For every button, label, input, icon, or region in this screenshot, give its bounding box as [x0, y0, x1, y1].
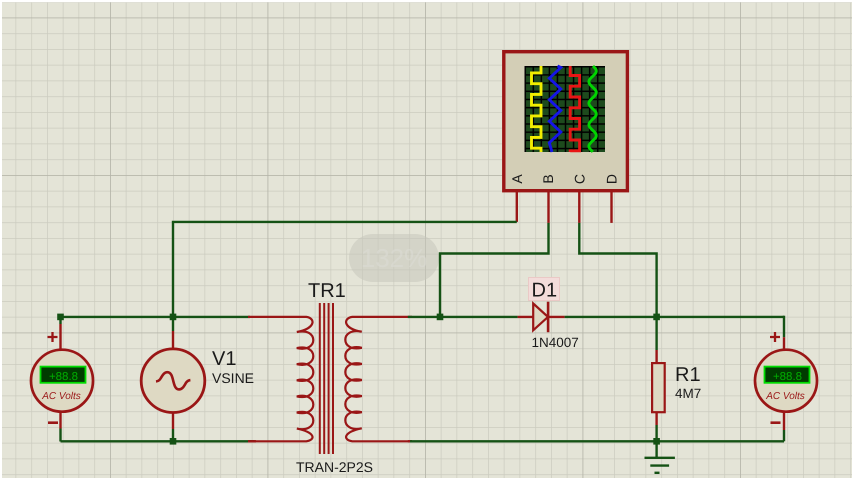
- junction node: left voltmeter / top rail: [57, 314, 64, 321]
- left AC voltmeter: [31, 332, 93, 423]
- transformer TR1 core: [320, 303, 333, 454]
- scope trace channel D (green sine): [589, 66, 596, 152]
- transformer TR1 secondary winding (right): [345, 317, 412, 441]
- wire: diode to right rail (green): [565, 316, 784, 318]
- wire: scope pin C stub: [578, 191, 580, 223]
- svg-text:V1: V1: [212, 348, 236, 370]
- svg-text:VSINE: VSINE: [212, 370, 254, 386]
- wire: red segment into diode anode: [518, 316, 534, 318]
- svg-text:D1: D1: [532, 280, 558, 302]
- svg-text:4M7: 4M7: [675, 386, 701, 401]
- right AC voltmeter: [755, 332, 817, 423]
- diode D1: [529, 278, 579, 351]
- junction node: secondary top / pin B: [437, 314, 444, 321]
- zoom-level smudge overlay: [349, 234, 439, 282]
- svg-text:C: C: [572, 174, 588, 184]
- svg-text:AC Volts: AC Volts: [41, 391, 81, 402]
- svg-text:A: A: [509, 174, 525, 184]
- wire: bottom rail red into primary: [248, 440, 256, 442]
- wire: scope pin D stub (unconnected): [610, 191, 612, 223]
- junction node: diode out / pin C / R1: [653, 314, 660, 321]
- wire: V1 bottom stub: [172, 412, 174, 430]
- wire: scope pin B stub: [547, 191, 549, 223]
- wire: bottom rail left: [61, 440, 255, 442]
- wire: top rail into primary (red) + primary winding TR1 left: [248, 317, 313, 441]
- wire: bottom rail right (green): [410, 440, 784, 442]
- scope trace channel C (red square): [570, 66, 579, 152]
- wire: right rail corner down to right voltmeter +: [783, 316, 785, 338]
- svg-text:TRAN-2P2S: TRAN-2P2S: [296, 459, 373, 475]
- scope trace channel A (yellow square): [532, 66, 542, 152]
- wire: secondary bottom red segment: [408, 440, 412, 442]
- voltage source V1: [141, 348, 254, 413]
- svg-text:TR1: TR1: [308, 280, 346, 302]
- wire: pin B to secondary top junction: [440, 223, 549, 317]
- oscilloscope screen: [525, 66, 606, 152]
- wire: R1 top stub: [655, 317, 657, 350]
- ground: [645, 441, 675, 473]
- oscilloscope body: [504, 52, 628, 191]
- junction node: R1 ground / bottom rail: [653, 438, 660, 445]
- wire: top rail left green segment: [61, 316, 251, 318]
- wire: diode cathode red segment: [548, 316, 565, 318]
- wire: secondary top to diode (green): [408, 316, 518, 318]
- wire: left voltmeter bottom stub: [59, 411, 61, 429]
- wire: left voltmeter top stub: [59, 317, 61, 324]
- wire: right voltmeter bottom stub: [783, 430, 785, 441]
- wire: R1 bottom stub: [655, 412, 657, 425]
- junction node: V1 / top rail: [170, 314, 177, 321]
- junction node: V1 / bottom rail: [170, 438, 177, 445]
- scope trace channel B (blue triangle): [549, 66, 561, 152]
- wire: V1 top stub: [172, 317, 174, 331]
- resistor R1: [652, 363, 665, 412]
- wire: pin A to top rail (net A): [173, 222, 517, 317]
- svg-text:B: B: [540, 174, 556, 183]
- svg-text:R1: R1: [675, 364, 701, 386]
- wire: pin C to diode output junction: [579, 223, 656, 317]
- svg-text:+88.8: +88.8: [773, 371, 802, 383]
- svg-text:D: D: [603, 174, 619, 184]
- svg-text:+88.8: +88.8: [49, 371, 78, 383]
- svg-text:AC Volts: AC Volts: [765, 391, 805, 402]
- svg-text:132%: 132%: [361, 243, 428, 273]
- wire: scope pin A stub: [516, 191, 518, 222]
- svg-text:1N4007: 1N4007: [532, 335, 579, 350]
